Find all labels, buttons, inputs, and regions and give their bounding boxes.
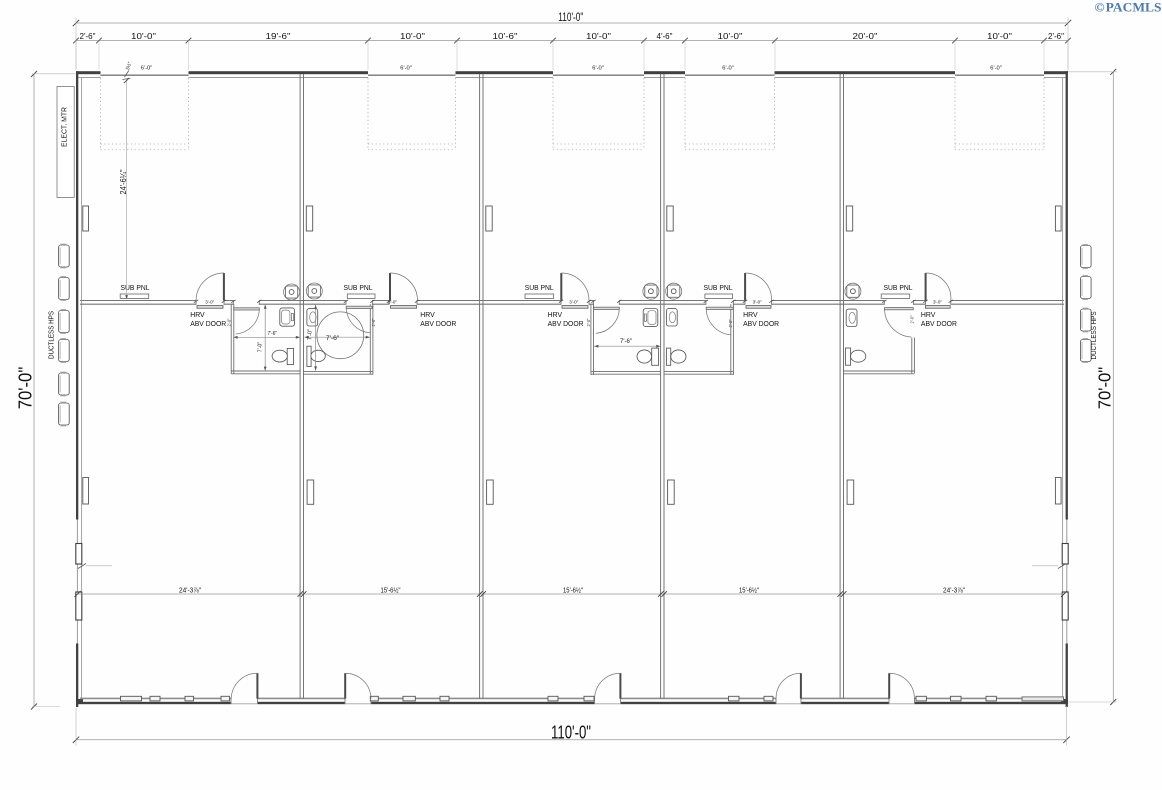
- svg-text:7'-0": 7'-0": [307, 329, 313, 340]
- svg-text:3'-0": 3'-0": [933, 299, 942, 305]
- svg-text:24'-6¼": 24'-6¼": [119, 169, 128, 194]
- svg-text:7'-6": 7'-6": [268, 331, 278, 337]
- svg-text:24'-3⅞": 24'-3⅞": [179, 586, 201, 595]
- svg-text:10'-0": 10'-0": [586, 32, 611, 41]
- svg-text:15'-6½": 15'-6½": [563, 586, 583, 595]
- svg-text:3'-0": 3'-0": [205, 299, 214, 305]
- svg-text:2'-0": 2'-0": [227, 318, 232, 326]
- svg-text:70'-0": 70'-0": [16, 367, 36, 410]
- svg-text:7'-6": 7'-6": [326, 335, 340, 342]
- svg-text:15'-6½": 15'-6½": [739, 586, 759, 595]
- svg-text:10'-0": 10'-0": [987, 32, 1012, 41]
- svg-text:10'-0": 10'-0": [131, 32, 156, 41]
- svg-text:HRV: HRV: [743, 310, 758, 319]
- svg-text:2'-0": 2'-0": [371, 318, 376, 326]
- svg-text:15'-6½": 15'-6½": [381, 586, 401, 595]
- svg-text:3'-0": 3'-0": [753, 299, 762, 305]
- svg-text:10'-6": 10'-6": [493, 32, 518, 41]
- svg-text:2'-6": 2'-6": [80, 32, 96, 41]
- svg-text:6'-0": 6'-0": [592, 65, 604, 71]
- svg-text:10'-0": 10'-0": [400, 32, 425, 41]
- svg-text:24'-3⅞": 24'-3⅞": [943, 586, 965, 595]
- svg-text:ELECT. MTR: ELECT. MTR: [59, 107, 68, 147]
- svg-text:SUB PNL: SUB PNL: [704, 283, 733, 292]
- svg-text:6'-0": 6'-0": [141, 65, 153, 71]
- svg-text:SUB PNL: SUB PNL: [884, 283, 913, 292]
- svg-text:110'-0": 110'-0": [551, 721, 591, 742]
- svg-text:ABV DOOR: ABV DOOR: [743, 319, 779, 328]
- svg-text:SUB PNL: SUB PNL: [121, 283, 150, 292]
- svg-text:2'-0": 2'-0": [728, 319, 733, 327]
- svg-text:2'-6": 2'-6": [1048, 32, 1064, 41]
- svg-text:6'-0": 6'-0": [400, 65, 412, 71]
- svg-text:SUB PNL: SUB PNL: [525, 283, 554, 292]
- svg-text:3'-0": 3'-0": [388, 299, 397, 305]
- svg-text:ABV DOOR: ABV DOOR: [420, 319, 456, 328]
- svg-text:4'-6": 4'-6": [657, 32, 673, 41]
- svg-text:2'-0": 2'-0": [586, 318, 591, 326]
- svg-text:HRV: HRV: [921, 310, 936, 319]
- svg-text:20'-0": 20'-0": [853, 32, 878, 41]
- svg-text:HRV: HRV: [548, 310, 563, 319]
- svg-text:7'-0": 7'-0": [258, 342, 264, 352]
- svg-text:110'-0": 110'-0": [558, 12, 583, 24]
- svg-text:ABV DOOR: ABV DOOR: [921, 319, 957, 328]
- svg-text:3'-0": 3'-0": [569, 299, 578, 305]
- svg-text:HRV: HRV: [420, 310, 435, 319]
- svg-text:DUCTLESS HPS: DUCTLESS HPS: [1089, 311, 1098, 359]
- svg-text:ABV DOOR: ABV DOOR: [190, 319, 226, 328]
- svg-text:10'-0": 10'-0": [718, 32, 743, 41]
- svg-text:6'-0": 6'-0": [990, 65, 1002, 71]
- svg-text:6'-0": 6'-0": [722, 65, 734, 71]
- svg-text:2'-0": 2'-0": [909, 315, 914, 323]
- svg-text:HRV: HRV: [190, 310, 205, 319]
- svg-text:© PACMLS: © PACMLS: [1095, 0, 1162, 14]
- svg-text:19'-6": 19'-6": [266, 32, 291, 41]
- svg-text:7'-6": 7'-6": [620, 339, 632, 345]
- svg-text:70'-0": 70'-0": [1095, 367, 1115, 410]
- svg-text:SUB PNL: SUB PNL: [344, 283, 373, 292]
- svg-text:ABV DOOR: ABV DOOR: [548, 319, 584, 328]
- svg-text:DUCTLESS HPS: DUCTLESS HPS: [47, 311, 56, 359]
